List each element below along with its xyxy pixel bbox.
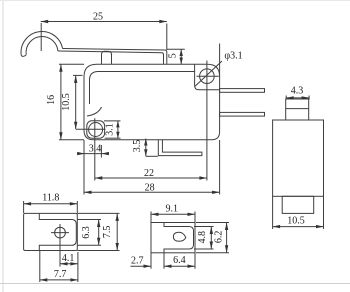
dim 3.1 bottom arrow (116, 132, 119, 139)
middle view inner-left extension (163, 253, 165, 269)
dim 11.8 line (24, 203, 78, 205)
dim 3.1 top arrow (116, 121, 119, 128)
page top border (0, 0, 350, 2)
dim 4.8 bottom extension (194, 248, 214, 250)
dim 3.1 line (117, 121, 119, 138)
dim 11.8 right arrow (70, 202, 78, 205)
dim 4.8 line (210, 227, 212, 250)
plate hole (55, 227, 66, 238)
side view plunger divider (286, 108, 309, 110)
dim 16 line (60, 64, 62, 140)
dim 4.1 right extension (77, 252, 79, 282)
dim 4.1 left arrow (60, 262, 68, 265)
dim 9.1 left extension (150, 212, 152, 223)
mounting hole boss top-right (195, 64, 220, 90)
dim 6.4 right arrow (188, 265, 196, 268)
side view body (273, 120, 324, 196)
svg-text:2.7: 2.7 (131, 256, 144, 267)
dim 22 right arrow (199, 176, 207, 179)
dim 4.3 right arrow (302, 96, 310, 99)
dim 7.5 bottom arrow (116, 243, 119, 251)
dim 25 left arrow (41, 20, 49, 23)
dim 3.4 left arrow (77, 152, 85, 155)
dim 6.4 left arrow (164, 265, 172, 268)
dim 7.5 top extension (78, 212, 120, 214)
dim 10.5 side left extension (272, 196, 274, 229)
bottom-left plate outline (24, 213, 78, 250)
dim 28 line (84, 191, 220, 193)
svg-text:6.3: 6.3 (81, 226, 92, 239)
page left border (2, 0, 4, 292)
dim 22 left arrow (95, 176, 103, 179)
dim 25 right extension / lever right edge ext (166, 24, 168, 51)
svg-text:4.1: 4.1 (62, 253, 75, 264)
svg-text:10.5: 10.5 (61, 93, 72, 111)
dim 6.3 top extension (77, 219, 101, 221)
bottom-left plate inner outline (39, 213, 76, 250)
svg-text:3.4: 3.4 (89, 144, 102, 155)
dim 4.8 top extension (194, 226, 214, 228)
mounting hole bottom-left (89, 123, 103, 137)
lever roller arc inner (26, 37, 58, 55)
lever roller arc outer (21, 32, 63, 56)
dim 7.7 left extension (39, 251, 41, 282)
dim 4.1 right arrow (70, 262, 78, 265)
dim 9.1 right arrow (188, 213, 196, 216)
dim 6.2 top arrow (225, 223, 228, 231)
svg-text:3.5: 3.5 (132, 140, 143, 153)
side view plunger block (286, 99, 309, 120)
dim 10.5 top arrow (74, 75, 77, 83)
svg-text:25: 25 (93, 12, 103, 23)
dim 10.5 side right arrow (316, 225, 324, 228)
dim 3.4 line (77, 153, 109, 155)
dim 6.3 top arrow (97, 220, 100, 228)
dim 7.5 line (116, 213, 118, 250)
hole crosshair horizontal (also 10.5 ext) (76, 128, 106, 130)
svg-text:11.8: 11.8 (42, 193, 59, 204)
dim 6.2 bottom arrow (225, 245, 228, 253)
body right edge extension above (219, 44, 221, 77)
svg-text:16: 16 (46, 95, 57, 105)
dim 9.1 line (151, 213, 195, 215)
dim 3.5 top arrow (144, 139, 147, 146)
dim 4.3 left arrow (286, 96, 294, 99)
dim 3.5 bottom arrow (144, 149, 147, 156)
dim 28 left extension (83, 158, 85, 195)
svg-text:7.5: 7.5 (102, 226, 113, 239)
leader line phi3.1 (195, 61, 222, 86)
dim 3.4 right arrow (101, 152, 109, 155)
dim 6.4 line (164, 265, 195, 267)
dim 5 bottom arrow (180, 58, 183, 65)
hole centerline vertical (206, 61, 208, 181)
dim 10.5 top extension (73, 74, 83, 76)
dim 3.1 bottom extension (105, 137, 121, 139)
body inner bottom-left arc (87, 107, 102, 116)
dim 28 right arrow (212, 191, 220, 194)
dim 9.1 left arrow (151, 213, 159, 216)
middle view right extension (194, 253, 196, 269)
svg-text:7.7: 7.7 (54, 269, 67, 280)
dim 25 right arrow (159, 20, 167, 23)
dim 7.7 line (40, 279, 78, 281)
mounting boss bottom-left (87, 121, 105, 138)
dim 10.5 side right extension (323, 196, 325, 229)
dim 10.5 side line (273, 226, 324, 228)
dim 4.3 right extension (308, 96, 310, 100)
dim 4.1 line (60, 263, 78, 265)
mounting hole top-right (200, 69, 215, 84)
svg-text:10.5: 10.5 (287, 216, 305, 227)
dim 11.8 left extension (23, 201, 25, 213)
dim 4.8 top arrow (210, 227, 213, 235)
dim 25 line (41, 21, 167, 23)
switch body outline (84, 64, 220, 140)
lever strip top edge (63, 49, 167, 64)
dim 3.4 left extension (83, 140, 85, 158)
dim 2.7 line (131, 265, 152, 267)
svg-text:28: 28 (145, 182, 155, 193)
dim 3.4 right extension (100, 145, 102, 158)
dim 6.3 bottom arrow (97, 238, 100, 246)
dim 5 line (180, 49, 182, 64)
hole crosshair horizontal (197, 75, 219, 77)
dim 6.2 bottom extension (196, 252, 229, 254)
dim 11.8 left arrow (24, 202, 32, 205)
dim 5 top extension (167, 48, 185, 50)
plunger (102, 51, 112, 64)
dim 16 bottom extension (59, 139, 84, 141)
middle view left extension (150, 253, 152, 269)
plate hole crosshair vertical (also 4.1 ext) (59, 224, 61, 267)
dim 10.5 bottom arrow (74, 122, 77, 130)
dim 2.7 arrow (144, 265, 152, 268)
body inner top line (90, 72, 195, 105)
dim 22 line (95, 177, 207, 179)
terminal upper (220, 89, 265, 93)
svg-text:6.2: 6.2 (213, 231, 224, 244)
dim 7.7 right arrow (70, 278, 78, 281)
dim 6.2 top extension (196, 222, 229, 224)
bottom-middle view outline (151, 223, 195, 253)
dim 10.5 line (75, 75, 77, 129)
dim 4.3 left extension (285, 96, 287, 100)
dim 3.1 top extension (104, 120, 121, 122)
lever strip bottom edge (58, 51, 164, 64)
dim 28 right extension (219, 140, 221, 195)
dim 7.5 bottom extension (78, 250, 120, 252)
svg-text:5: 5 (168, 53, 179, 58)
dim 6.3 bottom extension (77, 244, 101, 246)
page bottom border (0, 283, 350, 285)
dim 6.2 line (226, 223, 228, 253)
hole crosshair vertical (also 22 ext) (94, 118, 96, 180)
svg-text:9.1: 9.1 (165, 203, 178, 214)
dim 4.8 bottom arrow (210, 242, 213, 250)
plate hole crosshair horizontal (51, 232, 69, 234)
bottom-middle view inner outline (164, 223, 194, 253)
dim 4.3 line (286, 97, 309, 99)
dim 11.8 right extension (76, 201, 78, 213)
dim 10.5 side left arrow (273, 225, 281, 228)
dim 7.5 top arrow (116, 213, 119, 221)
svg-text:6.4: 6.4 (173, 255, 186, 266)
terminal lower (220, 112, 265, 116)
lever roller centerline (40, 23, 42, 51)
dim 7.7 left arrow (40, 278, 48, 281)
svg-text:4.3: 4.3 (291, 86, 304, 97)
side view bottom block (282, 196, 314, 213)
dim 28 left arrow (84, 191, 92, 194)
svg-text:3.1: 3.1 (105, 123, 116, 136)
svg-text:22: 22 (144, 168, 154, 179)
dim 9.1 right extension (194, 212, 196, 223)
dim 16 top extension (59, 63, 84, 65)
lever left end cap (21, 55, 26, 57)
terminal hole teardrop (173, 232, 185, 241)
dim 6.3 line (98, 220, 100, 246)
dim 16 top arrow (59, 64, 62, 72)
dim 3.5 line (145, 139, 147, 157)
dim 3.5 bottom extension (146, 155, 158, 157)
svg-text:4.8: 4.8 (197, 231, 208, 244)
common terminal bottom (158, 140, 202, 156)
svg-text:φ3.1: φ3.1 (224, 51, 242, 62)
dim 16 bottom arrow (59, 132, 62, 140)
dim 5 top arrow (180, 49, 183, 56)
